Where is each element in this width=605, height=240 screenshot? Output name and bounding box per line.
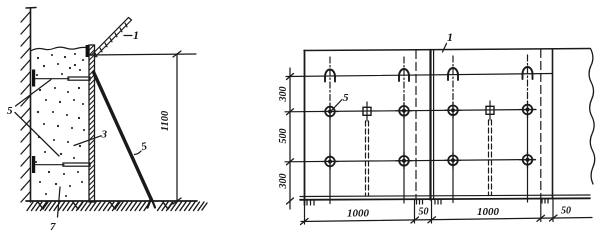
row C line (285, 160, 535, 162)
ground hatch left (27, 202, 207, 211)
svg-text:5: 5 (343, 92, 349, 104)
weld ticks group 3 (435, 200, 441, 205)
bolt circle C2 (396, 153, 412, 169)
bolt circle C3 (445, 152, 461, 168)
column centerline 2 (403, 57, 405, 203)
bolt circle C1 (322, 154, 338, 170)
svg-text:1: 1 (133, 28, 139, 42)
label 5 right (332, 92, 349, 110)
svg-text:300: 300 (278, 174, 289, 190)
svg-text:1000: 1000 (477, 206, 500, 218)
plate right edge (552, 50, 554, 199)
svg-text:3: 3 (101, 129, 108, 141)
svg-text:7: 7 (50, 221, 56, 233)
weld ticks group 2 (417, 200, 423, 205)
brace 5 (94, 72, 156, 208)
svg-text:300: 300 (278, 87, 289, 103)
square anchor 1 hidden rod (366, 121, 369, 196)
bottom extension lines (305, 199, 554, 225)
svg-text:5: 5 (7, 105, 13, 117)
square anchor 2 hidden rod (489, 120, 492, 195)
label 3 (74, 129, 108, 146)
row A line (286, 74, 552, 77)
plate top edge (304, 49, 590, 51)
bottom dimension line (301, 206, 593, 225)
dashed joint line 2 (540, 50, 542, 199)
strut bar 1 (91, 18, 132, 58)
lifting hook 1 (325, 70, 335, 82)
wall line (26, 8, 36, 203)
square anchor 1 (363, 102, 371, 121)
upper tie rod (32, 70, 90, 87)
square anchor 2 (486, 101, 494, 120)
post (sheet pile) (89, 45, 95, 202)
soil surface wavy line (32, 47, 89, 50)
column centerline 3 (452, 56, 454, 203)
label 1 left (124, 28, 139, 42)
svg-text:1: 1 (447, 30, 453, 44)
clamp at post top (86, 45, 90, 57)
weld ticks group 4 (542, 199, 548, 204)
bolt circle C4 (520, 152, 536, 168)
svg-text:50: 50 (419, 207, 429, 218)
dashed joint line 1 (415, 51, 417, 200)
plate left edge (304, 51, 306, 206)
panel divider double line (431, 50, 434, 200)
weld ticks group 1 (307, 201, 314, 206)
break line (589, 49, 595, 185)
label 5 far left with two leaders (7, 80, 59, 157)
svg-text:1100: 1100 (160, 110, 171, 131)
dimension 1100 (160, 51, 181, 204)
lower tie rod (32, 156, 90, 173)
bolt circle B2 (396, 103, 412, 119)
lifting hook 2 (399, 69, 409, 81)
bolt circle B1 (322, 104, 338, 120)
wall hatching (21, 12, 30, 202)
plate bottom double edge (300, 195, 590, 200)
top line to dimension (88, 54, 196, 55)
bolt circle B3 (445, 102, 461, 118)
bolt circle B4 (520, 102, 536, 118)
soil stipple dots (35, 53, 85, 197)
post hatch (89, 45, 94, 200)
column centerline 4 (527, 55, 529, 202)
row B line (285, 110, 536, 112)
label 5 mid (135, 140, 149, 154)
label 1 right (443, 30, 454, 52)
lifting hook 4 (523, 67, 533, 79)
svg-text:1000: 1000 (347, 208, 370, 220)
label 7 (50, 187, 60, 233)
svg-text:500: 500 (278, 129, 289, 144)
left dimension line 300/500/300 (278, 68, 294, 209)
column centerline 1 (329, 57, 331, 204)
svg-text:50: 50 (561, 206, 571, 217)
lifting hook 3 (448, 68, 458, 80)
ground line left (26, 200, 197, 202)
